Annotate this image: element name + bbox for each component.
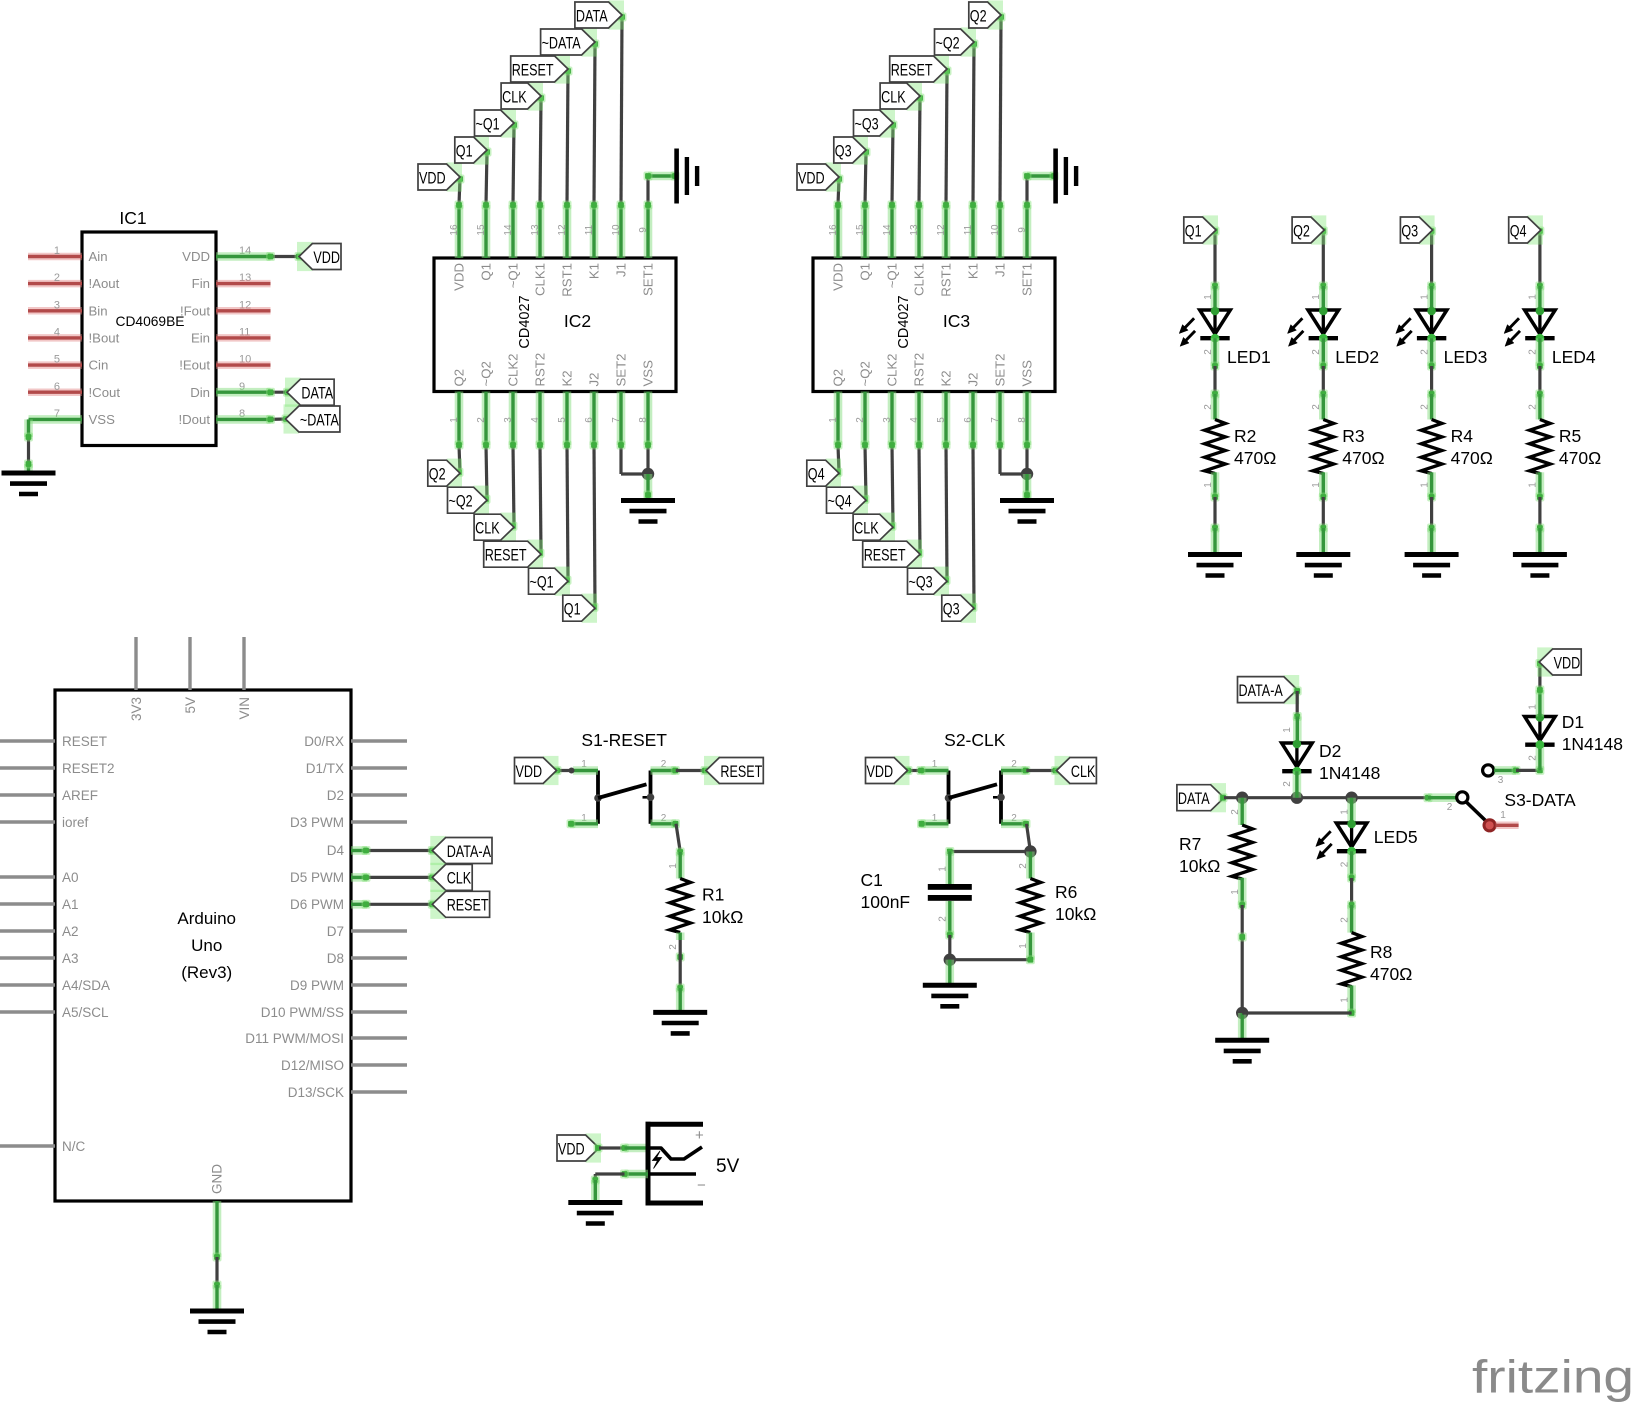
- svg-text:CLK: CLK: [447, 869, 472, 888]
- svg-text:D5 PWM: D5 PWM: [290, 870, 344, 885]
- svg-text:RST1: RST1: [560, 263, 575, 297]
- svg-text:DATA: DATA: [576, 6, 608, 25]
- svg-text:10: 10: [611, 224, 622, 236]
- svg-text:1: 1: [54, 245, 60, 257]
- svg-text:K1: K1: [587, 263, 602, 279]
- svg-text:fritzing: fritzing: [1472, 1351, 1634, 1403]
- svg-text:Q3: Q3: [1401, 221, 1418, 240]
- svg-text:R1: R1: [702, 885, 724, 905]
- svg-text:1: 1: [1230, 889, 1241, 895]
- svg-text:D0/RX: D0/RX: [304, 734, 344, 749]
- svg-text:3: 3: [882, 417, 893, 423]
- svg-text:RESET2: RESET2: [62, 761, 115, 776]
- svg-text:Ein: Ein: [191, 330, 210, 345]
- svg-text:Q2: Q2: [1293, 221, 1310, 240]
- svg-text:3: 3: [1498, 775, 1504, 786]
- svg-text:CLK1: CLK1: [912, 263, 927, 296]
- svg-text:RESET: RESET: [512, 60, 554, 79]
- svg-text:J1: J1: [614, 263, 629, 277]
- svg-text:~DATA: ~DATA: [542, 33, 581, 52]
- svg-text:RESET: RESET: [864, 546, 906, 565]
- svg-text:VSS: VSS: [641, 360, 656, 387]
- svg-text:~Q1: ~Q1: [476, 114, 500, 133]
- svg-text:1: 1: [1528, 482, 1539, 488]
- svg-text:6: 6: [963, 417, 974, 423]
- svg-text:K2: K2: [939, 370, 954, 386]
- svg-text:K1: K1: [966, 263, 981, 279]
- svg-text:Ain: Ain: [89, 249, 108, 264]
- svg-text:R8: R8: [1370, 942, 1392, 962]
- svg-text:R7: R7: [1179, 834, 1201, 854]
- svg-text:Q3: Q3: [943, 600, 960, 619]
- svg-text:~Q2: ~Q2: [936, 33, 960, 52]
- svg-text:A1: A1: [62, 897, 79, 912]
- svg-text:A4/SDA: A4/SDA: [62, 978, 110, 993]
- svg-text:2: 2: [1230, 809, 1241, 815]
- svg-text:D8: D8: [327, 951, 344, 966]
- svg-text:N/C: N/C: [62, 1139, 86, 1154]
- svg-text:CLK2: CLK2: [885, 354, 900, 387]
- svg-text:LED3: LED3: [1444, 347, 1488, 367]
- svg-text:Fin: Fin: [192, 276, 210, 291]
- svg-text:Q1: Q1: [1185, 221, 1202, 240]
- svg-text:1: 1: [1018, 943, 1029, 949]
- svg-text:VSS: VSS: [1020, 360, 1035, 387]
- svg-text:4: 4: [54, 326, 60, 338]
- svg-text:R6: R6: [1055, 882, 1077, 902]
- svg-text:C1: C1: [861, 870, 883, 890]
- svg-text:CLK: CLK: [1071, 762, 1096, 781]
- svg-text:6: 6: [584, 417, 595, 423]
- svg-text:VDD: VDD: [1554, 653, 1581, 672]
- svg-text:3: 3: [54, 299, 60, 311]
- svg-text:CLK1: CLK1: [533, 263, 548, 296]
- svg-text:ioref: ioref: [62, 815, 89, 830]
- svg-text:Din: Din: [190, 385, 210, 400]
- svg-text:1: 1: [938, 866, 949, 872]
- svg-text:2: 2: [1447, 802, 1453, 813]
- svg-text:1: 1: [1339, 997, 1350, 1003]
- svg-text:D10 PWM/SS: D10 PWM/SS: [261, 1005, 344, 1020]
- svg-text:CLK: CLK: [475, 519, 500, 538]
- svg-text:16: 16: [828, 224, 839, 236]
- svg-text:CLK: CLK: [854, 519, 879, 538]
- svg-text:D3 PWM: D3 PWM: [290, 815, 344, 830]
- svg-text:Arduino: Arduino: [177, 909, 236, 928]
- svg-text:~DATA: ~DATA: [300, 410, 339, 429]
- svg-text:Q3: Q3: [835, 141, 852, 160]
- svg-text:~Q4: ~Q4: [828, 492, 852, 511]
- svg-text:R3: R3: [1342, 426, 1364, 446]
- svg-text:2: 2: [668, 944, 679, 950]
- svg-text:K2: K2: [560, 370, 575, 386]
- svg-text:Q2: Q2: [429, 465, 446, 484]
- svg-text:1: 1: [668, 863, 679, 869]
- svg-text:1: 1: [1311, 294, 1322, 300]
- svg-text:R2: R2: [1234, 426, 1256, 446]
- svg-text:VDD: VDD: [182, 249, 210, 264]
- svg-text:Q1: Q1: [858, 263, 873, 281]
- svg-text:DATA-A: DATA-A: [1239, 681, 1284, 700]
- svg-text:!Fout: !Fout: [180, 303, 210, 318]
- svg-text:D4: D4: [327, 843, 345, 858]
- svg-text:A0: A0: [62, 870, 79, 885]
- svg-text:1: 1: [1528, 294, 1539, 300]
- svg-text:2: 2: [1203, 349, 1214, 355]
- svg-text:12: 12: [557, 224, 568, 236]
- svg-text:2: 2: [1419, 349, 1430, 355]
- svg-text:1: 1: [1419, 294, 1430, 300]
- svg-text:D2: D2: [1319, 741, 1341, 761]
- svg-text:VDD: VDD: [452, 263, 467, 291]
- svg-text:!Aout: !Aout: [89, 276, 120, 291]
- svg-text:1: 1: [1339, 809, 1350, 815]
- svg-text:D1: D1: [1562, 712, 1584, 732]
- svg-text:(Rev3): (Rev3): [181, 963, 232, 982]
- svg-text:9: 9: [1017, 227, 1028, 233]
- svg-text:LED1: LED1: [1227, 347, 1271, 367]
- svg-text:6: 6: [54, 381, 60, 393]
- svg-text:RST2: RST2: [912, 353, 927, 387]
- svg-text:2: 2: [1311, 404, 1322, 410]
- svg-text:D9 PWM: D9 PWM: [290, 978, 344, 993]
- svg-text:DATA: DATA: [1178, 789, 1210, 808]
- svg-text:J2: J2: [587, 373, 602, 387]
- svg-text:A5/SCL: A5/SCL: [62, 1005, 109, 1020]
- svg-text:15: 15: [476, 224, 487, 236]
- svg-text:Q2: Q2: [831, 369, 846, 387]
- svg-text:16: 16: [449, 224, 460, 236]
- svg-text:1: 1: [1528, 704, 1539, 710]
- svg-text:2: 2: [476, 417, 487, 423]
- svg-text:2: 2: [1528, 755, 1539, 761]
- svg-text:7: 7: [611, 417, 622, 423]
- svg-text:SET2: SET2: [993, 354, 1008, 387]
- svg-text:D2: D2: [327, 788, 344, 803]
- svg-text:!Eout: !Eout: [179, 358, 210, 373]
- svg-text:CLK2: CLK2: [506, 354, 521, 387]
- svg-text:RESET: RESET: [891, 60, 933, 79]
- svg-text:7: 7: [990, 417, 1001, 423]
- svg-text:4: 4: [909, 417, 920, 423]
- svg-text:A3: A3: [62, 951, 79, 966]
- svg-text:SET1: SET1: [1020, 263, 1035, 296]
- svg-text:1: 1: [828, 417, 839, 423]
- svg-text:2: 2: [1311, 349, 1322, 355]
- svg-text:5: 5: [557, 417, 568, 423]
- svg-text:!Cout: !Cout: [89, 385, 121, 400]
- svg-text:IC3: IC3: [943, 311, 970, 331]
- svg-text:2: 2: [1339, 861, 1350, 867]
- svg-text:1: 1: [1419, 482, 1430, 488]
- svg-text:−: −: [697, 1177, 706, 1194]
- svg-text:AREF: AREF: [62, 788, 98, 803]
- svg-text:13: 13: [909, 224, 920, 236]
- svg-text:1: 1: [1203, 294, 1214, 300]
- svg-text:+: +: [695, 1127, 704, 1144]
- svg-text:2: 2: [1339, 917, 1350, 923]
- svg-text:2: 2: [1528, 404, 1539, 410]
- svg-text:Bin: Bin: [89, 303, 108, 318]
- svg-text:GND: GND: [210, 1164, 225, 1194]
- svg-text:100nF: 100nF: [861, 892, 911, 912]
- svg-text:2: 2: [938, 916, 949, 922]
- svg-text:470Ω: 470Ω: [1234, 448, 1276, 468]
- svg-text:1: 1: [1311, 482, 1322, 488]
- svg-text:LED4: LED4: [1552, 347, 1596, 367]
- svg-text:~Q3: ~Q3: [909, 573, 933, 592]
- svg-text:A2: A2: [62, 924, 79, 939]
- svg-text:5V: 5V: [716, 1156, 740, 1177]
- svg-text:~Q2: ~Q2: [858, 361, 873, 386]
- svg-text:D1/TX: D1/TX: [306, 761, 344, 776]
- svg-text:5V: 5V: [183, 697, 198, 714]
- svg-text:D6 PWM: D6 PWM: [290, 897, 344, 912]
- svg-text:11: 11: [963, 224, 974, 235]
- svg-text:R4: R4: [1451, 426, 1474, 446]
- svg-text:2: 2: [1203, 404, 1214, 410]
- svg-text:Cin: Cin: [89, 358, 109, 373]
- svg-text:8: 8: [1017, 417, 1028, 423]
- svg-text:DATA-A: DATA-A: [447, 842, 492, 861]
- svg-text:Q4: Q4: [808, 465, 825, 484]
- svg-text:SET1: SET1: [641, 263, 656, 296]
- svg-text:D12/MISO: D12/MISO: [281, 1058, 344, 1073]
- svg-text:VDD: VDD: [558, 1139, 585, 1158]
- svg-text:VDD: VDD: [798, 168, 825, 187]
- svg-text:RESET: RESET: [447, 896, 489, 915]
- svg-text:470Ω: 470Ω: [1370, 964, 1412, 984]
- svg-text:Q1: Q1: [479, 263, 494, 281]
- svg-text:D11 PWM/MOSI: D11 PWM/MOSI: [245, 1031, 344, 1046]
- svg-text:VDD: VDD: [516, 762, 543, 781]
- svg-text:3: 3: [503, 417, 514, 423]
- svg-text:VDD: VDD: [831, 263, 846, 291]
- svg-text:2: 2: [1528, 349, 1539, 355]
- svg-text:RESET: RESET: [485, 546, 527, 565]
- svg-text:DATA: DATA: [301, 384, 333, 403]
- svg-text:VDD: VDD: [867, 762, 894, 781]
- svg-text:1: 1: [1203, 482, 1214, 488]
- svg-text:14: 14: [882, 224, 893, 236]
- svg-text:!Dout: !Dout: [178, 412, 210, 427]
- svg-text:2: 2: [1282, 781, 1293, 787]
- svg-text:470Ω: 470Ω: [1559, 448, 1601, 468]
- svg-text:Uno: Uno: [191, 936, 222, 955]
- svg-text:1N4148: 1N4148: [1319, 763, 1380, 783]
- svg-text:VSS: VSS: [89, 412, 116, 427]
- svg-text:CD4027: CD4027: [517, 295, 533, 348]
- svg-text:11: 11: [584, 224, 595, 235]
- svg-text:10: 10: [990, 224, 1001, 236]
- svg-text:RESET: RESET: [62, 734, 107, 749]
- svg-text:1: 1: [1500, 810, 1506, 821]
- svg-text:2: 2: [1018, 863, 1029, 869]
- svg-text:2: 2: [1419, 404, 1430, 410]
- svg-text:2: 2: [54, 272, 60, 284]
- svg-text:S1-RESET: S1-RESET: [581, 730, 667, 750]
- svg-text:RESET: RESET: [720, 762, 762, 781]
- svg-text:15: 15: [855, 224, 866, 236]
- svg-text:D13/SCK: D13/SCK: [288, 1085, 344, 1100]
- svg-text:14: 14: [503, 224, 514, 236]
- svg-text:8: 8: [638, 417, 649, 423]
- svg-text:13: 13: [530, 224, 541, 236]
- svg-text:RST1: RST1: [939, 263, 954, 297]
- svg-text:RST2: RST2: [533, 353, 548, 387]
- svg-text:~Q1: ~Q1: [506, 263, 521, 288]
- svg-text:LED5: LED5: [1374, 827, 1418, 847]
- svg-text:470Ω: 470Ω: [1342, 448, 1384, 468]
- svg-text:Q2: Q2: [452, 369, 467, 387]
- svg-text:J1: J1: [993, 263, 1008, 277]
- svg-text:1: 1: [1282, 727, 1293, 733]
- svg-text:3V3: 3V3: [129, 697, 144, 721]
- svg-text:~Q1: ~Q1: [530, 573, 554, 592]
- svg-text:9: 9: [638, 227, 649, 233]
- svg-text:~Q3: ~Q3: [855, 114, 879, 133]
- svg-text:!Bout: !Bout: [89, 330, 120, 345]
- svg-text:SET2: SET2: [614, 354, 629, 387]
- svg-text:4: 4: [530, 417, 541, 423]
- svg-text:VDD: VDD: [419, 168, 446, 187]
- svg-text:12: 12: [936, 224, 947, 236]
- svg-text:IC2: IC2: [564, 311, 591, 331]
- svg-text:CD4069BE: CD4069BE: [115, 314, 184, 329]
- svg-text:CLK: CLK: [502, 87, 527, 106]
- svg-text:5: 5: [54, 354, 60, 366]
- svg-text:J2: J2: [966, 373, 981, 387]
- svg-text:LED2: LED2: [1335, 347, 1379, 367]
- svg-text:~Q2: ~Q2: [479, 361, 494, 386]
- svg-text:S3-DATA: S3-DATA: [1504, 790, 1576, 810]
- svg-text:1: 1: [449, 417, 460, 423]
- svg-text:10kΩ: 10kΩ: [1179, 856, 1220, 876]
- svg-text:CD4027: CD4027: [896, 295, 912, 348]
- svg-text:CLK: CLK: [881, 87, 906, 106]
- svg-text:S2-CLK: S2-CLK: [944, 730, 1006, 750]
- svg-text:~Q2: ~Q2: [449, 492, 473, 511]
- svg-text:10kΩ: 10kΩ: [702, 907, 743, 927]
- svg-text:2: 2: [855, 417, 866, 423]
- svg-text:10kΩ: 10kΩ: [1055, 904, 1096, 924]
- svg-text:470Ω: 470Ω: [1451, 448, 1493, 468]
- svg-text:VIN: VIN: [237, 697, 252, 720]
- svg-text:VDD: VDD: [313, 248, 340, 267]
- svg-text:5: 5: [936, 417, 947, 423]
- svg-text:Q4: Q4: [1510, 221, 1527, 240]
- svg-text:R5: R5: [1559, 426, 1581, 446]
- svg-text:1N4148: 1N4148: [1562, 734, 1623, 754]
- svg-text:Q1: Q1: [456, 141, 473, 160]
- svg-text:Q2: Q2: [970, 6, 987, 25]
- svg-text:IC1: IC1: [119, 208, 146, 228]
- svg-text:Q1: Q1: [564, 600, 581, 619]
- svg-text:~Q1: ~Q1: [885, 263, 900, 288]
- svg-text:D7: D7: [327, 924, 344, 939]
